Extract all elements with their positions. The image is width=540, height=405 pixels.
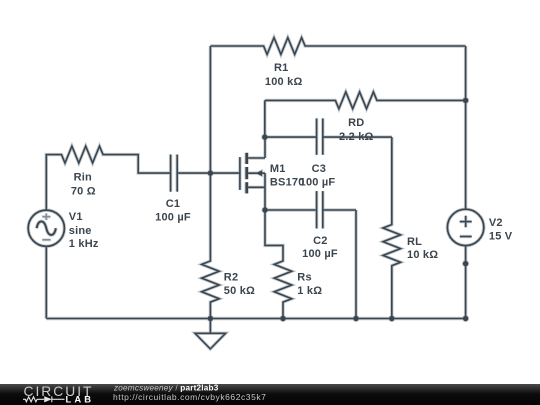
- svg-text:R2: R2: [224, 272, 238, 284]
- svg-text:1 kHz: 1 kHz: [69, 238, 99, 250]
- svg-text:V1: V1: [69, 211, 83, 223]
- svg-text:100 kΩ: 100 kΩ: [265, 76, 303, 88]
- svg-text:R1: R1: [274, 62, 288, 74]
- svg-text:zoemcsweeney / part2lab3: zoemcsweeney / part2lab3: [113, 384, 219, 392]
- svg-text:100 µF: 100 µF: [300, 176, 336, 188]
- svg-text:BS170: BS170: [270, 176, 305, 188]
- svg-text:70 Ω: 70 Ω: [71, 185, 96, 197]
- svg-text:M1: M1: [270, 163, 286, 175]
- svg-text:15 V: 15 V: [489, 231, 513, 243]
- svg-text:LAB: LAB: [66, 394, 95, 405]
- svg-text:C2: C2: [313, 235, 327, 247]
- svg-text:C1: C1: [166, 198, 180, 210]
- svg-text:100 µF: 100 µF: [155, 211, 191, 223]
- svg-text:1 kΩ: 1 kΩ: [297, 285, 322, 297]
- svg-text:100 µF: 100 µF: [302, 248, 338, 260]
- svg-text:C3: C3: [312, 163, 326, 175]
- svg-text:V2: V2: [489, 217, 503, 229]
- svg-text:http://circuitlab.com/cvbyk662: http://circuitlab.com/cvbyk662c35k7: [113, 392, 266, 402]
- svg-text:2.2 kΩ: 2.2 kΩ: [339, 131, 374, 143]
- svg-text:50 kΩ: 50 kΩ: [224, 285, 255, 297]
- svg-text:Rin: Rin: [74, 172, 92, 184]
- svg-text:RL: RL: [407, 236, 422, 248]
- svg-text:Rs: Rs: [297, 272, 311, 284]
- svg-text:10 kΩ: 10 kΩ: [407, 249, 438, 261]
- svg-text:sine: sine: [69, 225, 92, 237]
- svg-text:RD: RD: [348, 117, 364, 129]
